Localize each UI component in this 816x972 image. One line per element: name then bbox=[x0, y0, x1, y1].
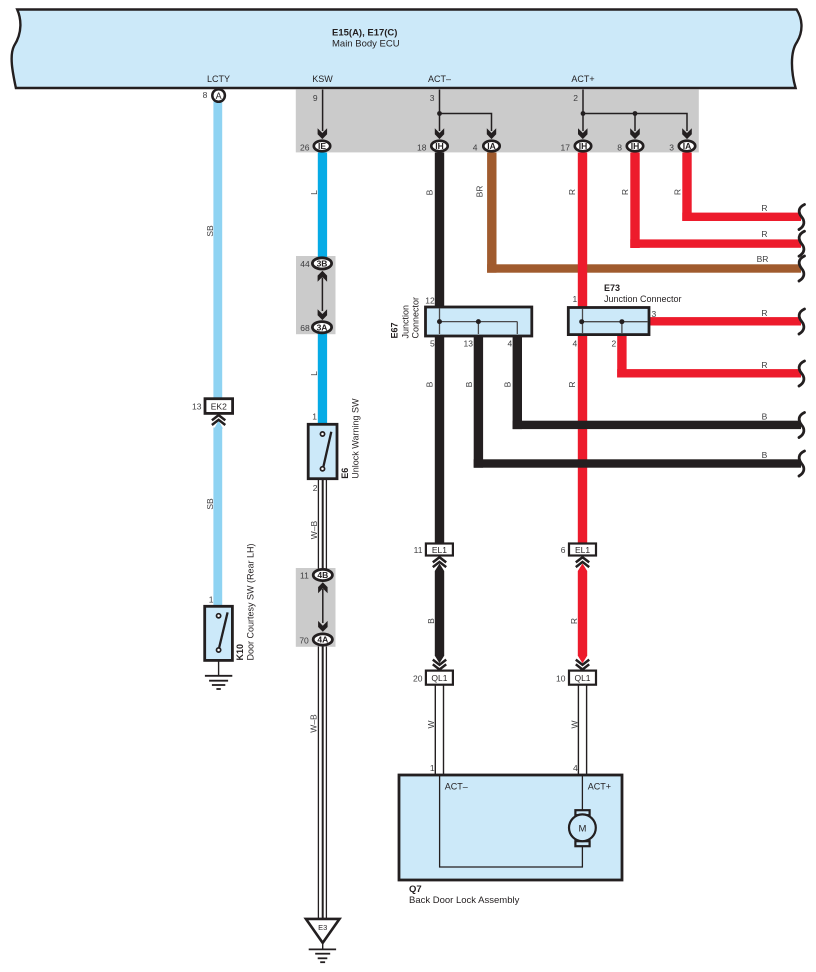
chevron arrows below EK2 bbox=[212, 415, 225, 425]
svg-text:BR: BR bbox=[475, 186, 485, 198]
svg-text:3: 3 bbox=[430, 93, 435, 103]
wire R EL1 to QL1 with arrow ends bbox=[578, 564, 587, 664]
ground point E3 bbox=[306, 919, 340, 950]
wire W-B segment 4A to E3 bbox=[318, 646, 326, 918]
node on ACT+ branch 2 bbox=[633, 111, 638, 116]
wire drop from ACT- pin 3 bbox=[430, 90, 440, 114]
connector 68 3A bbox=[300, 322, 331, 333]
svg-text:12: 12 bbox=[425, 296, 435, 306]
arrow into 17 IH bbox=[578, 128, 588, 139]
svg-text:3A: 3A bbox=[317, 322, 328, 332]
wire SB lower segment with pointed tip bbox=[213, 421, 223, 607]
svg-text:ACT–: ACT– bbox=[445, 782, 468, 792]
wire stem to 8 IH bbox=[634, 114, 636, 132]
wire drop from ACT+ pin 2 bbox=[573, 90, 583, 114]
tear mark R wire y241 bbox=[799, 231, 805, 256]
wire B from E67 pin 13 bbox=[474, 336, 801, 468]
E67 labels bbox=[390, 296, 513, 349]
svg-text:R: R bbox=[673, 189, 683, 195]
svg-text:4B: 4B bbox=[317, 570, 328, 580]
svg-text:W: W bbox=[426, 720, 436, 728]
svg-text:B: B bbox=[503, 381, 513, 387]
junction connector E67 bbox=[426, 307, 532, 336]
svg-text:W–B: W–B bbox=[309, 520, 319, 539]
svg-text:R: R bbox=[620, 189, 630, 195]
svg-text:R: R bbox=[761, 360, 767, 370]
svg-text:2: 2 bbox=[573, 93, 578, 103]
svg-text:Junction Connector: Junction Connector bbox=[604, 294, 682, 304]
svg-text:3: 3 bbox=[669, 143, 674, 153]
wire L lower segment bbox=[318, 334, 327, 425]
wire B from E67 pin 4 bbox=[513, 336, 801, 429]
chevron arrows above QL1 red bbox=[576, 660, 589, 670]
wire to ground from K10 bbox=[218, 660, 220, 675]
svg-text:IE: IE bbox=[318, 141, 326, 151]
connector 4 IA bbox=[473, 141, 500, 153]
svg-text:BR: BR bbox=[757, 254, 769, 264]
wire R from E73 pin 2 bbox=[617, 335, 801, 378]
wire W from QL1 to Q7 pin 4 bbox=[578, 685, 586, 775]
gray box for 3B/3A connectors bbox=[296, 256, 336, 334]
svg-text:B: B bbox=[762, 450, 768, 460]
svg-text:2: 2 bbox=[313, 483, 318, 493]
svg-text:68: 68 bbox=[300, 323, 310, 333]
svg-text:17: 17 bbox=[561, 143, 571, 153]
arrow into 4 IA bbox=[487, 128, 496, 139]
connector 11 4B bbox=[300, 569, 332, 580]
wire between 3B and 3A bbox=[321, 278, 323, 312]
svg-text:L: L bbox=[309, 371, 319, 376]
connector 11 EL1 bbox=[414, 544, 453, 556]
ECU band E15(A),E17(C) Main Body ECU bbox=[12, 10, 802, 89]
arrow down into 4A bbox=[318, 621, 328, 632]
tear mark R wire y217 bbox=[799, 205, 805, 230]
ground below K10 bbox=[205, 676, 232, 689]
wire R from E73 pin 3 bbox=[647, 317, 801, 325]
svg-text:IH: IH bbox=[631, 141, 640, 151]
svg-text:11: 11 bbox=[414, 545, 423, 555]
gray box for 4B/4A connectors bbox=[296, 568, 336, 647]
tear mark B wire y463 bbox=[799, 451, 805, 476]
svg-text:11: 11 bbox=[300, 571, 309, 581]
svg-text:M: M bbox=[578, 823, 586, 834]
svg-text:B: B bbox=[464, 381, 474, 387]
svg-text:EL1: EL1 bbox=[432, 545, 447, 555]
motor M in Q7 bbox=[569, 810, 596, 846]
svg-text:Back Door Lock Assembly: Back Door Lock Assembly bbox=[409, 895, 520, 906]
svg-text:1: 1 bbox=[572, 294, 577, 304]
tear mark B wire y425 bbox=[799, 413, 805, 438]
svg-text:70: 70 bbox=[299, 635, 309, 645]
svg-text:ACT+: ACT+ bbox=[571, 74, 594, 84]
svg-text:3: 3 bbox=[652, 309, 657, 319]
wire stem to 17 IH bbox=[582, 114, 584, 132]
node on ACT- branch bbox=[437, 111, 442, 116]
svg-text:Unlock Warning SW: Unlock Warning SW bbox=[351, 398, 361, 479]
svg-text:44: 44 bbox=[300, 259, 310, 269]
svg-text:4: 4 bbox=[572, 339, 577, 349]
svg-text:IA: IA bbox=[683, 141, 692, 151]
wire L upper segment bbox=[318, 153, 327, 258]
svg-text:5: 5 bbox=[430, 339, 435, 349]
svg-text:IA: IA bbox=[487, 141, 496, 151]
arrow into 3 IA bbox=[682, 128, 692, 139]
svg-text:1: 1 bbox=[209, 594, 214, 604]
svg-text:E6: E6 bbox=[340, 468, 350, 479]
svg-text:Main Body ECU: Main Body ECU bbox=[332, 39, 400, 50]
connector 18 IH bbox=[417, 141, 448, 153]
svg-text:E73: E73 bbox=[604, 283, 620, 293]
svg-text:E67: E67 bbox=[390, 322, 400, 338]
svg-text:ACT+: ACT+ bbox=[588, 782, 611, 792]
wire SB upper segment bbox=[213, 102, 222, 400]
Q7 Back Door Lock Assembly box bbox=[399, 775, 622, 880]
chevron arrows below EL1 bbox=[433, 557, 446, 567]
junction connector E73 bbox=[568, 308, 649, 335]
svg-text:1: 1 bbox=[312, 411, 317, 421]
wire R from 3 IA bbox=[682, 153, 801, 222]
svg-text:EL1: EL1 bbox=[575, 545, 590, 555]
svg-text:18: 18 bbox=[417, 143, 427, 153]
wire R from 8 IH bbox=[630, 153, 801, 249]
wire drop from KSW pin 9 bbox=[313, 90, 323, 132]
arrow into 18 IH bbox=[435, 128, 444, 139]
svg-text:SB: SB bbox=[205, 225, 215, 237]
wire BR from 4 IA bbox=[487, 153, 801, 273]
svg-text:B: B bbox=[426, 618, 436, 624]
svg-text:B: B bbox=[424, 381, 434, 387]
connector 70 4A bbox=[299, 634, 332, 645]
Q7 label bbox=[409, 884, 520, 906]
svg-text:LCTY: LCTY bbox=[207, 74, 230, 84]
connector 44 3B bbox=[300, 258, 331, 269]
svg-text:3B: 3B bbox=[317, 259, 328, 269]
tear mark BR wire y268 bbox=[799, 256, 805, 281]
svg-text:20: 20 bbox=[413, 673, 423, 683]
connector 8 IH bbox=[617, 141, 643, 153]
connector 20 QL1 bbox=[413, 671, 453, 685]
svg-text:IH: IH bbox=[435, 141, 444, 151]
svg-text:SB: SB bbox=[205, 498, 215, 510]
svg-text:R: R bbox=[569, 618, 579, 624]
svg-text:Door Courtesy SW (Rear LH): Door Courtesy SW (Rear LH) bbox=[246, 543, 256, 660]
switch K10 Door Courtesy SW (Rear LH) bbox=[205, 543, 256, 660]
wire W from QL1 to Q7 pin 1 bbox=[435, 685, 443, 775]
svg-text:E3: E3 bbox=[318, 923, 327, 932]
svg-text:EK2: EK2 bbox=[211, 401, 227, 411]
svg-text:4: 4 bbox=[507, 339, 512, 349]
chevron arrows below EL1 red bbox=[576, 557, 589, 567]
wire between 4B and 4A bbox=[322, 589, 324, 623]
svg-text:8: 8 bbox=[617, 143, 622, 153]
svg-text:10: 10 bbox=[556, 673, 566, 683]
svg-text:KSW: KSW bbox=[312, 74, 333, 84]
switch E6 Unlock Warning SW bbox=[308, 398, 360, 493]
svg-text:6: 6 bbox=[561, 545, 566, 555]
svg-text:W–B: W–B bbox=[309, 714, 319, 733]
wire branch ACT+ horizontal bbox=[583, 114, 687, 132]
svg-text:ACT–: ACT– bbox=[428, 74, 451, 84]
connector 13 EK2 bbox=[192, 399, 233, 414]
chevron arrows above QL1 bbox=[433, 660, 446, 670]
svg-text:L: L bbox=[309, 190, 319, 195]
svg-text:B: B bbox=[424, 189, 434, 195]
svg-text:W: W bbox=[569, 720, 579, 728]
node on ACT+ branch bbox=[581, 111, 586, 116]
E73 labels bbox=[572, 283, 681, 349]
svg-text:K10: K10 bbox=[235, 644, 245, 661]
svg-text:9: 9 bbox=[313, 93, 318, 103]
svg-text:4: 4 bbox=[573, 763, 578, 773]
gray shaded region under ECU bbox=[296, 89, 699, 152]
svg-text:4: 4 bbox=[473, 143, 478, 153]
wire R main from 17 IH through E73 to EL1 bbox=[578, 153, 587, 544]
svg-text:13: 13 bbox=[464, 339, 474, 349]
connector 3 IA bbox=[669, 141, 695, 153]
wire stem to 18 IH bbox=[439, 114, 441, 132]
wire B main from 18 IH through E67 to EL1 bbox=[435, 153, 444, 544]
svg-text:QL1: QL1 bbox=[574, 673, 590, 683]
svg-text:13: 13 bbox=[192, 402, 202, 412]
arrow into 8 IH bbox=[630, 128, 640, 139]
connector 26 IE bbox=[300, 141, 330, 153]
svg-text:R: R bbox=[761, 229, 767, 239]
svg-text:A: A bbox=[216, 91, 222, 101]
tear mark R wire y321 bbox=[799, 309, 805, 334]
connector 17 IH bbox=[561, 141, 592, 153]
svg-text:B: B bbox=[762, 411, 768, 421]
svg-text:Junction: Junction bbox=[401, 305, 411, 339]
wire W-B segment E6 to 4B bbox=[318, 479, 326, 569]
svg-text:R: R bbox=[567, 189, 577, 195]
wire B EL1 to QL1 with arrow ends bbox=[435, 564, 444, 664]
svg-text:1: 1 bbox=[430, 763, 435, 773]
svg-text:IH: IH bbox=[579, 141, 588, 151]
svg-text:QL1: QL1 bbox=[431, 673, 447, 683]
svg-text:4A: 4A bbox=[317, 635, 328, 645]
wire branch ACT- horizontal bbox=[440, 114, 492, 132]
connector 6 EL1 bbox=[561, 544, 596, 556]
arrow into IE bbox=[318, 128, 328, 139]
svg-text:R: R bbox=[567, 381, 577, 387]
arrow down into 3A bbox=[318, 309, 328, 320]
connector 10 QL1 bbox=[556, 671, 596, 685]
svg-text:2: 2 bbox=[611, 339, 616, 349]
arrow up into 4B bbox=[318, 582, 328, 593]
svg-text:E15(A), E17(C): E15(A), E17(C) bbox=[332, 28, 397, 39]
svg-text:Connector: Connector bbox=[411, 297, 421, 339]
svg-text:Q7: Q7 bbox=[409, 884, 422, 895]
ground symbol E3 bbox=[309, 949, 336, 962]
svg-text:8: 8 bbox=[203, 90, 208, 100]
svg-text:R: R bbox=[761, 203, 767, 213]
svg-text:26: 26 bbox=[300, 143, 310, 153]
arrow up into 3B bbox=[318, 271, 328, 282]
connector pin 8 (A) bbox=[203, 89, 225, 102]
svg-text:R: R bbox=[761, 308, 767, 318]
tear mark R wire y373 bbox=[799, 361, 805, 386]
